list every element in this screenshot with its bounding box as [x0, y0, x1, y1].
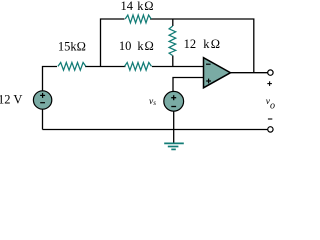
svg-text:12 V: 12 V	[0, 93, 22, 107]
svg-text:kΩ: kΩ	[203, 37, 221, 51]
svg-text:10: 10	[119, 39, 131, 53]
svg-text:14: 14	[121, 0, 134, 13]
svg-text:kΩ: kΩ	[137, 0, 154, 13]
svg-text:vs: vs	[149, 97, 156, 107]
svg-text:15kΩ: 15kΩ	[58, 40, 86, 54]
svg-text:kΩ: kΩ	[137, 39, 154, 53]
svg-text:12: 12	[184, 37, 197, 51]
svg-text:vo: vo	[266, 97, 275, 111]
